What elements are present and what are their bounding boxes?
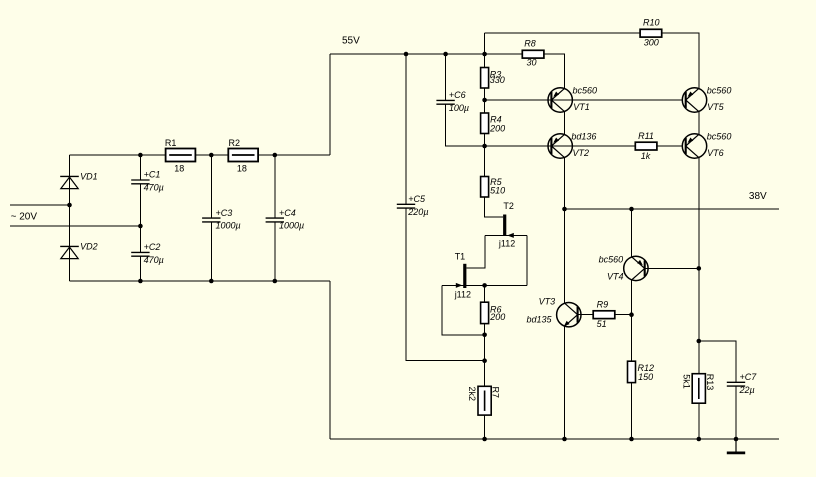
wire R8 to VT1 emitter [544,54,565,89]
wire T1 gate loop [442,285,484,334]
wire riser to 55V rail [329,54,331,155]
wire R9 to VT4 line [615,314,632,316]
wire C1-C2 branch lower [139,256,141,281]
resistor R4 [481,113,489,134]
transistor VT2 bd136 [548,134,572,158]
wire C4 branch upper [274,155,276,218]
svg-text:T1: T1 [455,252,466,262]
wire C6 branch lower [446,104,485,146]
svg-text:2k2: 2k2 [467,387,477,402]
svg-text:300: 300 [644,37,659,47]
wire R9 node to R12 [631,315,633,362]
junction R3-R4 node [482,98,487,103]
svg-text:R9: R9 [597,300,609,310]
transistor VT3 bd135 [557,303,581,327]
svg-text:bc560: bc560 [707,131,732,141]
svg-text:470µ: 470µ [144,255,164,265]
wire VT2 collector to 38V [564,158,566,304]
svg-text:200: 200 [489,312,505,322]
wire C3 branch lower [210,222,212,281]
wire C1-C2 branch upper [139,155,141,180]
junction R7 bottom [482,437,487,442]
wire top 33 rail to R10 [485,32,641,34]
wire C7 branch top [699,341,736,382]
wire C3 branch upper [210,155,212,218]
wire T2 to T1 drain [466,235,485,268]
svg-text:+C7: +C7 [740,372,758,382]
wire T1 source line [442,284,527,286]
capacitor C2 [131,252,149,256]
wire C4 branch lower [274,222,276,281]
wire R6 node to R7 [484,335,486,387]
wire C6 branch upper [445,54,447,100]
capacitor C5 [397,204,415,208]
junction C5 top [404,52,409,57]
junction C5-R7 node [482,358,487,363]
svg-text:+C1: +C1 [144,170,161,180]
resistor R9 [593,311,615,319]
svg-text:R1: R1 [165,138,177,148]
junction 38V-VT4 [629,207,634,212]
transistor VT1 bc560 [548,88,572,112]
resistor R1 [166,149,196,162]
svg-text:+C6: +C6 [449,90,466,100]
wire R4 to R5 [484,134,486,177]
junction R4-C6 node [482,144,487,149]
svg-text:bc560: bc560 [573,86,598,96]
junction C4 bottom [273,279,278,284]
svg-text:bd135: bd135 [526,315,552,325]
svg-text:55V: 55V [342,36,360,47]
wire T2 source line [485,234,527,236]
svg-text:R8: R8 [524,38,536,48]
svg-text:R11: R11 [638,131,654,141]
svg-text:470µ: 470µ [144,183,164,193]
svg-text:100µ: 100µ [449,103,469,113]
wire drop to bottom rail [329,281,331,439]
svg-text:~ 20V: ~ 20V [11,211,38,222]
svg-text:18: 18 [237,164,247,174]
svg-text:bc560: bc560 [599,255,624,265]
wire R6 upper link [484,285,486,302]
junction 38V left end [562,207,567,212]
svg-text:1000µ: 1000µ [279,221,304,231]
svg-text:+C3: +C3 [216,208,233,218]
svg-text:200: 200 [489,123,505,133]
resistor R11 [635,142,657,150]
wire T2 drain down [526,235,528,285]
junction R9-R12 node [629,312,634,317]
junction C3 top [209,153,214,158]
svg-text:+C5: +C5 [408,194,426,204]
wire R7 to bottom rail [484,415,486,439]
ground [727,439,745,453]
junction T1 source node [482,283,487,288]
transistor VT4 bc560 [624,256,648,280]
wire R11 to VT6 base [657,145,682,147]
wire R5 to T2 gate [485,197,504,217]
junction C2 bottom [138,279,143,284]
resistor R13 [692,374,705,404]
wire VT6 collector down [698,158,700,341]
wire R12 to bottom rail [631,383,633,439]
transistor T1 j112 [456,264,467,288]
wire bottom-left rail [70,280,330,282]
svg-text:18: 18 [174,164,184,174]
wire top-left rail [70,154,330,156]
svg-text:T2: T2 [503,201,514,211]
wire C7 to ground [735,386,737,439]
svg-text:VT3: VT3 [539,296,556,306]
junction C3 bottom [209,279,214,284]
wire VT3 base to R9 [579,314,594,316]
svg-text:bd136: bd136 [571,131,596,141]
svg-text:30: 30 [527,58,537,68]
wire bottom rail [330,438,779,440]
transistor VT6 bc560 [682,134,706,158]
capacitor C3 [202,218,220,222]
capacitor C6 [436,100,454,104]
wire R6 lower link [484,324,486,335]
wire R3-R4 link [484,88,486,113]
svg-text:j112: j112 [498,239,515,249]
wire AC input top [10,204,70,206]
svg-text:VT5: VT5 [707,102,725,112]
wire VT3 emitter to bottom rail [564,326,566,439]
junction C1 top [138,153,143,158]
svg-text:VT4: VT4 [607,271,624,281]
svg-text:38V: 38V [749,191,767,202]
junction diode-input [67,203,72,208]
wire 55V rail [330,53,523,55]
junction R6 bottom node [482,333,487,338]
junction 55V-R3 [482,52,487,57]
junction VT4 base node [697,266,702,271]
svg-text:510: 510 [490,186,505,196]
transistor T2 j112 [503,215,514,238]
resistor R3 [481,68,489,89]
transistor VT5 bc560 [682,88,706,112]
wire VT4 branch upper [631,209,633,257]
svg-text:1k: 1k [641,151,651,161]
capacitor C4 [266,218,284,222]
junction C6 top [443,52,448,57]
wire diode branch vertical [69,155,71,281]
svg-text:22µ: 22µ [739,385,755,395]
capacitor C1 [131,180,149,184]
wire C5 branch lower [406,208,485,361]
svg-text:R10: R10 [643,18,660,28]
svg-text:R2: R2 [229,138,241,148]
svg-text:VD2: VD2 [80,241,98,251]
svg-text:VT6: VT6 [707,148,724,158]
svg-text:R13: R13 [705,374,715,391]
svg-text:+C2: +C2 [144,242,161,252]
wire R10 to VT5 emitter [662,33,699,89]
capacitor C7 [727,382,745,386]
svg-text:220µ: 220µ [407,207,428,217]
wire 38V rail [565,208,780,210]
junction C-input [138,224,143,229]
wire R13 to bottom rail [698,403,700,439]
wire to R13 [698,341,700,374]
svg-text:R7: R7 [491,387,501,399]
svg-text:VT2: VT2 [573,148,590,158]
wire VT4 collector to R9 node [631,280,633,315]
wire main branch top [484,33,486,68]
wire VT2 base line to R11 [485,145,636,147]
svg-text:51: 51 [597,319,607,329]
junction C7 bottom [734,437,739,442]
svg-text:bc560: bc560 [707,86,732,96]
svg-text:VD1: VD1 [80,171,98,181]
junction R12 bottom [629,437,634,442]
resistor R10 [640,29,662,37]
wire VT5-VT6 link [698,112,700,135]
resistor R12 [628,361,636,382]
svg-text:j112: j112 [454,290,471,300]
resistor R6 [481,302,489,323]
svg-text:5k1: 5k1 [682,374,692,389]
junction C4 top [273,153,278,158]
svg-text:330: 330 [490,75,505,85]
diode VD1 [60,176,79,188]
diode VD2 [60,246,79,258]
junction R13-C7 node [697,339,702,344]
junction VT3 bottom [562,437,567,442]
resistor R8 [522,50,544,58]
wire VT1-VT2 link [564,112,566,135]
resistor R5 [481,177,489,198]
svg-text:VT1: VT1 [573,102,590,112]
svg-text:+C4: +C4 [279,208,296,218]
resistor R7 [478,386,491,415]
wire C1-C2 branch middle [139,184,141,253]
wire VT1 base line [485,99,683,101]
wire C5 branch upper [405,54,407,204]
wire AC input bottom [10,225,140,227]
wire VT4 base line [646,267,699,269]
svg-text:1000µ: 1000µ [216,221,241,231]
resistor R2 [228,149,258,162]
junction R13 bottom [697,437,702,442]
svg-text:150: 150 [638,372,653,382]
